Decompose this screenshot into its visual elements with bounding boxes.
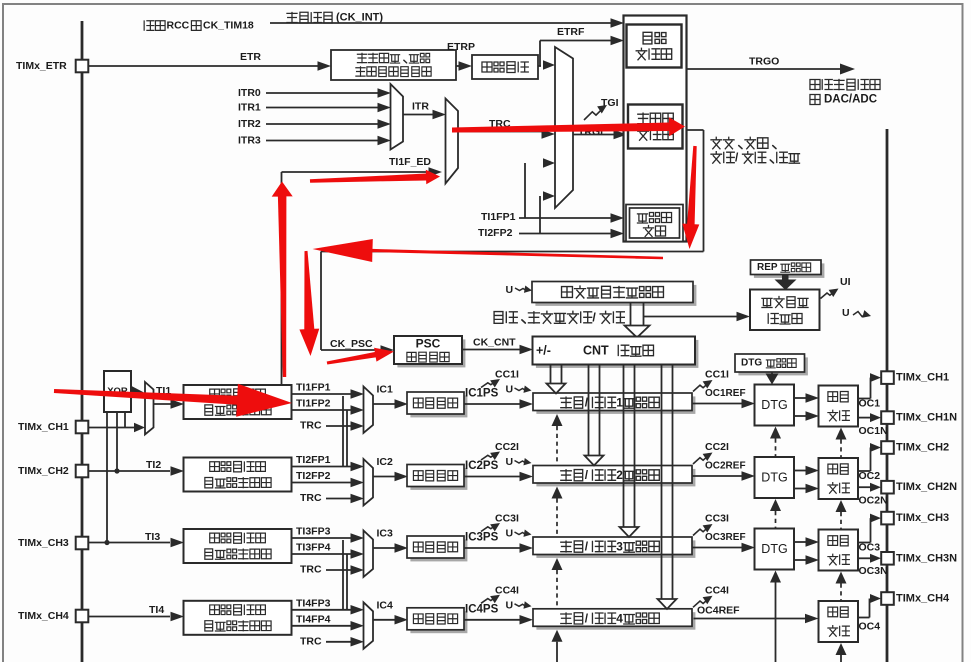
label U row1 — [506, 384, 514, 396]
label ETR — [240, 51, 261, 63]
svg-text:3: 3 — [616, 540, 623, 554]
block capture/compare register 2 捕获/比较2寄存器 — [533, 466, 695, 487]
svg-text:CC4I: CC4I — [495, 584, 519, 596]
block output control 1 输出控制 — [819, 386, 859, 427]
label U row4 — [506, 599, 514, 611]
wire IC1PS — [464, 399, 533, 409]
wire TRC row1 — [326, 421, 364, 431]
squiggle CC1I right — [693, 376, 715, 391]
label CC2I left — [495, 441, 519, 453]
svg-text:CK_CNT: CK_CNT — [473, 337, 516, 349]
label IC4 — [377, 599, 394, 611]
wire IC4 — [373, 615, 408, 625]
svg-text:TIMx_CH3N: TIMx_CH3N — [896, 552, 957, 564]
svg-text:TIMx_CH1: TIMx_CH1 — [18, 421, 69, 433]
block auto-reload register 自动重装载寄存器 — [532, 282, 696, 306]
svg-text:CC2I: CC2I — [705, 441, 729, 453]
hollow arrow CNT to CC3 — [620, 365, 639, 538]
label TI4 — [149, 604, 164, 616]
svg-text:ETRP: ETRP — [447, 41, 475, 53]
label TI1FP2 — [296, 398, 331, 410]
red annotation arrow down mid — [299, 251, 319, 356]
wire TI2FP2 — [292, 478, 364, 488]
label IC3 — [377, 528, 394, 540]
label TI1F_ED — [389, 156, 431, 168]
svg-text:TRGO: TRGO — [749, 56, 779, 68]
label U row3 — [506, 528, 514, 540]
svg-text:(CK_INT): (CK_INT) — [336, 12, 383, 24]
label TGI — [601, 97, 619, 109]
svg-text:CC3I: CC3I — [495, 513, 519, 525]
label OC4REF — [697, 605, 740, 617]
wire TI1F_ED — [282, 167, 443, 385]
svg-text:TIMx_CH3: TIMx_CH3 — [896, 512, 949, 524]
svg-text:1: 1 — [616, 396, 623, 410]
wire ITR3 — [266, 136, 391, 146]
block input filter row4 输入滤波器和边沿检测器 — [184, 601, 292, 635]
label OC2REF — [705, 461, 746, 472]
pin TIMx_CH3N — [881, 552, 957, 565]
svg-text:CNT: CNT — [583, 344, 609, 358]
svg-text:TIMx_CH1N: TIMx_CH1N — [896, 412, 957, 424]
label OC2N — [859, 495, 888, 507]
squiggle CC2I left — [481, 448, 502, 460]
svg-text:TI2: TI2 — [146, 459, 161, 471]
svg-text:ITR2: ITR2 — [238, 118, 261, 130]
wire IC2 — [373, 472, 408, 482]
svg-text:OC2N: OC2N — [859, 495, 888, 507]
label TI2 — [146, 459, 161, 471]
squiggle UI interrupt — [821, 285, 841, 299]
block output control 3 输出控制 — [819, 530, 859, 571]
svg-text:TIMx_CH3: TIMx_CH3 — [18, 537, 69, 549]
block capture/compare register 3 捕获/比较3寄存器 — [533, 537, 695, 558]
wire OC4REF — [694, 614, 819, 624]
label TI2FP1 — [296, 454, 331, 466]
block CNT counter CNT计数器 — [533, 337, 699, 368]
label OC3 — [859, 542, 881, 554]
svg-text:ETRF: ETRF — [557, 26, 585, 38]
label CC1I left — [495, 369, 519, 381]
wire OC2REF — [692, 471, 755, 481]
svg-text:CK_PSC: CK_PSC — [330, 338, 373, 350]
arrow XOR to mux — [132, 386, 144, 399]
wire TRC row2 — [326, 494, 364, 504]
block prescaler row4 预分频器 — [407, 608, 467, 633]
svg-text:ITR: ITR — [412, 101, 429, 113]
pin TIMx_CH1 — [881, 371, 949, 384]
label TRC row3 — [300, 564, 322, 576]
wire ITR0 — [266, 88, 391, 98]
label ITR0 — [238, 87, 261, 99]
wire OC1N to pin — [858, 413, 881, 422]
label U right — [842, 307, 850, 319]
mux TI1 selector — [145, 382, 154, 435]
label OC4 — [859, 621, 881, 633]
svg-text:U: U — [506, 456, 514, 468]
svg-text:TRC: TRC — [300, 492, 322, 504]
block prescaler row2 预分频器 — [407, 465, 467, 490]
wire CK_INT — [270, 18, 624, 28]
svg-text:OC1N: OC1N — [859, 425, 888, 437]
label TI3 — [145, 531, 160, 543]
svg-text:REP: REP — [757, 262, 778, 273]
wire TI1 — [154, 399, 185, 409]
block DTG3 — [755, 529, 795, 570]
svg-text:TI1F_ED: TI1F_ED — [389, 156, 431, 168]
squiggle U row4 — [515, 601, 533, 610]
block DTG2 — [755, 457, 795, 498]
label TI2FP2 enc — [478, 227, 513, 239]
label IC2PS — [465, 460, 499, 472]
label TRC row4 — [300, 635, 322, 647]
wire TI3FP3 — [292, 533, 364, 543]
label TI4FP4 — [296, 613, 331, 625]
block PSC prescaler PSC预分频器 — [394, 336, 465, 367]
wire IC3 — [373, 543, 408, 553]
squiggle U row3 — [515, 530, 533, 539]
label ITR2 — [238, 118, 261, 130]
wire IC3PS — [464, 543, 533, 553]
svg-text:U: U — [506, 599, 514, 611]
hollow arrow CNT to CC4 — [658, 365, 677, 610]
label TI1 — [156, 385, 171, 397]
svg-text:TI2FP1: TI2FP1 — [296, 454, 331, 466]
svg-text:TI3FP4: TI3FP4 — [296, 542, 331, 554]
label TI3FP4 — [296, 542, 331, 554]
label 至 DAC/ADC — [810, 94, 877, 106]
svg-text:TI3FP3: TI3FP3 — [296, 526, 331, 538]
wire TRGI — [573, 130, 627, 140]
svg-text:UI: UI — [840, 276, 851, 288]
label CC4I left — [495, 584, 519, 596]
wire ETRF — [538, 36, 624, 70]
label ETRF — [557, 26, 585, 38]
squiggle CC4I left — [481, 591, 502, 603]
label U autoreload — [506, 284, 514, 296]
wire TI2FP1 — [292, 462, 364, 472]
svg-text:TI1FP1: TI1FP1 — [296, 382, 331, 394]
wire TI1FP1 enc — [519, 158, 624, 223]
wire TI1FP2 — [292, 405, 364, 415]
squiggle CC2I right — [693, 449, 715, 464]
svg-text:TI2FP2: TI2FP2 — [296, 470, 331, 482]
label IC4PS — [465, 603, 499, 615]
wire IC1 — [373, 399, 408, 409]
label IC1PS — [465, 388, 499, 400]
svg-text:TRC: TRC — [300, 564, 322, 576]
left pin rail — [81, 21, 84, 662]
dashed chain DTG boxes — [770, 427, 781, 662]
svg-text:IC1PS: IC1PS — [465, 388, 499, 400]
mux ITR selector — [391, 84, 404, 150]
block controller group box — [624, 16, 687, 242]
wire TI2FP2 enc — [519, 191, 624, 238]
wire CH1 input — [89, 423, 146, 433]
svg-text:IC3: IC3 — [377, 528, 394, 540]
red annotation arrow to TI1F_ED mux — [310, 170, 440, 185]
wire IC2PS — [464, 472, 533, 482]
svg-text:/: / — [592, 310, 596, 324]
squiggle CC4I right — [693, 592, 715, 607]
svg-text:TRC: TRC — [300, 420, 322, 432]
wire TRC row3 — [326, 565, 364, 575]
svg-text:CC1I: CC1I — [495, 369, 519, 381]
block input filter row1 输入滤波器和边沿检测器 — [184, 385, 292, 419]
label OC3REF — [705, 532, 746, 543]
block input filter row3 输入滤波器和边沿检测器 — [184, 529, 292, 563]
svg-text:IC2PS: IC2PS — [465, 460, 499, 472]
svg-text:TI4FP4: TI4FP4 — [296, 613, 331, 625]
svg-text:TI1FP1: TI1FP1 — [481, 211, 516, 223]
svg-text:TIMx_CH4: TIMx_CH4 — [18, 610, 69, 622]
dashed chain output control boxes — [836, 428, 847, 662]
svg-text:OC3N: OC3N — [859, 565, 888, 577]
wire IC4PS — [464, 615, 533, 625]
svg-text:IC4PS: IC4PS — [465, 603, 499, 615]
svg-text:OC1REF: OC1REF — [705, 388, 746, 399]
right pin rail — [886, 129, 889, 662]
pin TIMx_ETR — [16, 60, 88, 73]
svg-text:CC2I: CC2I — [495, 441, 519, 453]
block DTG1 — [755, 385, 795, 426]
label TI1FP1 — [296, 382, 331, 394]
wire DTG2 out B — [794, 484, 819, 494]
red annotation arrow to PSC — [327, 348, 394, 365]
squiggle U row2 — [515, 458, 533, 467]
svg-text:ETR: ETR — [240, 51, 261, 63]
label ITR3 — [238, 135, 261, 147]
svg-text:CC4I: CC4I — [705, 584, 729, 596]
squiggle CC1I left — [481, 375, 502, 387]
wire ETRP — [456, 61, 472, 71]
label 来自RCC的CK_TIM18 — [144, 20, 254, 32]
wire OC4 to pin — [858, 594, 881, 618]
svg-text:CK_TIM18: CK_TIM18 — [203, 20, 254, 32]
block input filter row2 输入滤波器和边沿检测器 — [184, 458, 292, 492]
wire TI4FP3 — [292, 605, 364, 615]
squiggle CC3I right — [693, 520, 715, 535]
squiggle U event right — [853, 310, 872, 320]
wire ITR1 — [266, 103, 391, 113]
svg-text:OC2REF: OC2REF — [705, 461, 746, 472]
svg-text:TIMx_CH1: TIMx_CH1 — [896, 372, 949, 384]
block output control 2 输出控制 — [819, 458, 859, 499]
wire DTG2 out A — [794, 466, 819, 476]
svg-text:ITR3: ITR3 — [238, 135, 261, 147]
dashed capture event column — [552, 414, 563, 662]
block capture/compare register 1 捕获/比较1寄存器 — [533, 393, 695, 414]
label TI1FP1 enc — [481, 211, 516, 223]
block prescaler row3 预分频器 — [407, 536, 467, 561]
mux IC3 selector — [364, 531, 374, 578]
red annotation arrow down right — [682, 146, 699, 249]
svg-text:TIMx_CH4: TIMx_CH4 — [896, 593, 950, 605]
label OC2 — [859, 470, 881, 482]
label IC3PS — [465, 532, 499, 544]
wire OC2 to pin — [858, 443, 881, 471]
svg-text:U: U — [842, 307, 850, 319]
label TRC row1 — [300, 420, 322, 432]
svg-text:TRC: TRC — [300, 635, 322, 647]
svg-text:ITR1: ITR1 — [238, 102, 261, 114]
pin TIMx_CH2 left — [18, 465, 88, 478]
svg-text:TI1FP2: TI1FP2 — [296, 398, 331, 410]
hollow arrow CNT to CC1 — [547, 365, 566, 394]
label CC1I right — [705, 369, 729, 381]
mux TRGI selector — [555, 47, 573, 208]
wire OC2N to pin — [858, 483, 881, 492]
red annotation arrow up left — [272, 182, 293, 378]
block prescaler row1 预分频器 — [407, 392, 467, 417]
pin TIMx_CH4 left — [18, 610, 88, 623]
wire TI1FP2/TI2FP1 cross verticals — [343, 396, 347, 467]
wire ETR — [89, 61, 332, 71]
label TRC top — [489, 118, 511, 130]
label TRGI — [578, 126, 603, 138]
svg-text:DAC/ADC: DAC/ADC — [824, 94, 877, 106]
wire CH4 input TI4 — [89, 612, 185, 622]
pin TIMx_CH3 — [881, 512, 949, 525]
label IC2 — [377, 456, 394, 468]
svg-text:U: U — [506, 528, 514, 540]
label OC3N — [859, 565, 888, 577]
label 停止、清除或向上/向下 — [494, 310, 624, 324]
wire TI4FP4 — [292, 621, 364, 631]
label UI — [840, 276, 851, 288]
wire OC3 to pin — [858, 514, 881, 543]
red annotation arrow long left — [313, 239, 664, 262]
red annotation arrow to slave mode controller — [452, 117, 685, 136]
wire OC1REF — [692, 399, 755, 409]
svg-text:U: U — [506, 384, 514, 396]
label CK_CNT — [473, 337, 516, 349]
wire OC3N to pin — [858, 554, 881, 563]
block XOR gate — [104, 371, 131, 412]
svg-text:DTG: DTG — [761, 398, 787, 412]
wire XOR input verticals — [104, 412, 125, 545]
wire CH3 input TI3 — [89, 538, 185, 548]
svg-text:4: 4 — [616, 611, 623, 625]
label CC4I right — [705, 584, 729, 596]
block repetition counter 重复次数计数器 — [750, 290, 820, 331]
red annotation arrow to TI1 filter — [54, 384, 292, 417]
wire DTG1 out B — [794, 411, 819, 421]
mux IC2 selector — [364, 459, 374, 506]
squiggle U autoreload — [515, 286, 533, 295]
label U row2 — [506, 456, 514, 468]
svg-text:CC1I: CC1I — [705, 369, 729, 381]
svg-text:IC4: IC4 — [377, 599, 394, 611]
wire DTG1 out A — [794, 393, 819, 403]
label OC1N — [859, 425, 888, 437]
mux IC1 selector — [364, 387, 374, 434]
wire OC3REF — [692, 543, 755, 553]
squiggle U row1 — [515, 386, 533, 395]
svg-text:DTG: DTG — [741, 358, 762, 369]
wire DTG3 out B — [794, 555, 819, 565]
hollow arrow CNT to CC2 — [585, 365, 604, 466]
svg-text:TIMx_CH2: TIMx_CH2 — [896, 442, 949, 454]
wire TRC row4 — [326, 637, 364, 647]
label CC2I right — [705, 441, 729, 453]
svg-text:DTG: DTG — [761, 542, 787, 556]
label TRGO — [749, 56, 779, 68]
wire ITR2 — [266, 119, 391, 129]
label ITR1 — [238, 102, 261, 114]
mux IC4 selector — [364, 602, 374, 649]
block output control 4 输出控制 — [819, 601, 859, 642]
pin TIMx_CH4 — [881, 592, 950, 605]
label CC3I left — [495, 513, 519, 525]
wire OC1 to pin — [858, 373, 881, 398]
wire TRC top — [458, 129, 555, 139]
block REP register REP寄存器 — [751, 260, 825, 278]
svg-text:CC3I: CC3I — [705, 513, 729, 525]
label ETRP — [447, 41, 475, 53]
wire ITR — [403, 110, 446, 120]
label IC1 — [377, 384, 394, 396]
label 内部时钟 (CK_INT) — [287, 12, 383, 24]
wire slave-mode control path — [321, 130, 704, 355]
wire TRGO — [687, 64, 856, 75]
block slave mode controller 从模式控制器 — [628, 105, 683, 149]
squiggle CC3I left — [481, 519, 502, 531]
svg-text:TIMx_ETR: TIMx_ETR — [16, 60, 67, 72]
label 复位、使能、向上/向下、计数 — [711, 137, 800, 164]
label CC3I right — [705, 513, 729, 525]
block encoder interface 编码器接口 — [626, 205, 683, 242]
svg-text:TI3: TI3 — [145, 531, 160, 543]
block polarity selection 极性选择、边沿检测和预分频器 — [331, 50, 456, 80]
svg-text:TI4: TI4 — [149, 604, 164, 616]
arrow REP to repetition counter — [775, 275, 797, 291]
arrow DTG register to DTG — [766, 372, 779, 385]
svg-text:2: 2 — [616, 468, 623, 482]
svg-text:DTG: DTG — [761, 471, 787, 485]
block DTG register DTG寄存器 — [735, 354, 808, 375]
svg-text:TIMx_CH2N: TIMx_CH2N — [896, 481, 957, 493]
svg-text:OC4REF: OC4REF — [697, 605, 740, 617]
block input filter 输入滤波 — [472, 55, 538, 79]
label CK_PSC — [330, 338, 373, 350]
hollow arrow reload to CNT — [625, 303, 650, 338]
svg-text:OC4: OC4 — [859, 621, 881, 633]
squiggle TGI interrupt — [584, 101, 609, 120]
wire CH2 input TI2 — [89, 466, 185, 476]
svg-text:TI4FP3: TI4FP3 — [296, 597, 331, 609]
pin TIMx_CH1 left — [18, 421, 88, 434]
wire CK_CNT — [462, 345, 533, 355]
wire DTG3 out A — [794, 537, 819, 547]
block capture/compare register 4 捕获/比较4寄存器 — [533, 609, 695, 630]
wire TI3FP4/TI4FP3 cross verticals — [343, 540, 347, 610]
svg-text:OC3REF: OC3REF — [705, 532, 746, 543]
svg-text:ITR0: ITR0 — [238, 87, 261, 99]
svg-text:TI2FP2: TI2FP2 — [478, 227, 513, 239]
svg-text:IC1: IC1 — [377, 384, 394, 396]
wire TI3FP4 — [292, 549, 364, 559]
svg-text:TIMx_CH2: TIMx_CH2 — [18, 465, 69, 477]
wire TI1FP1 — [292, 389, 364, 399]
label ITR — [412, 101, 429, 113]
label 至其它定时器 — [810, 79, 880, 90]
svg-text:RCC: RCC — [167, 20, 190, 32]
pin TIMx_CH2N — [881, 481, 957, 494]
svg-text:IC2: IC2 — [377, 456, 394, 468]
label OC1 — [859, 398, 881, 410]
label TI3FP3 — [296, 526, 331, 538]
